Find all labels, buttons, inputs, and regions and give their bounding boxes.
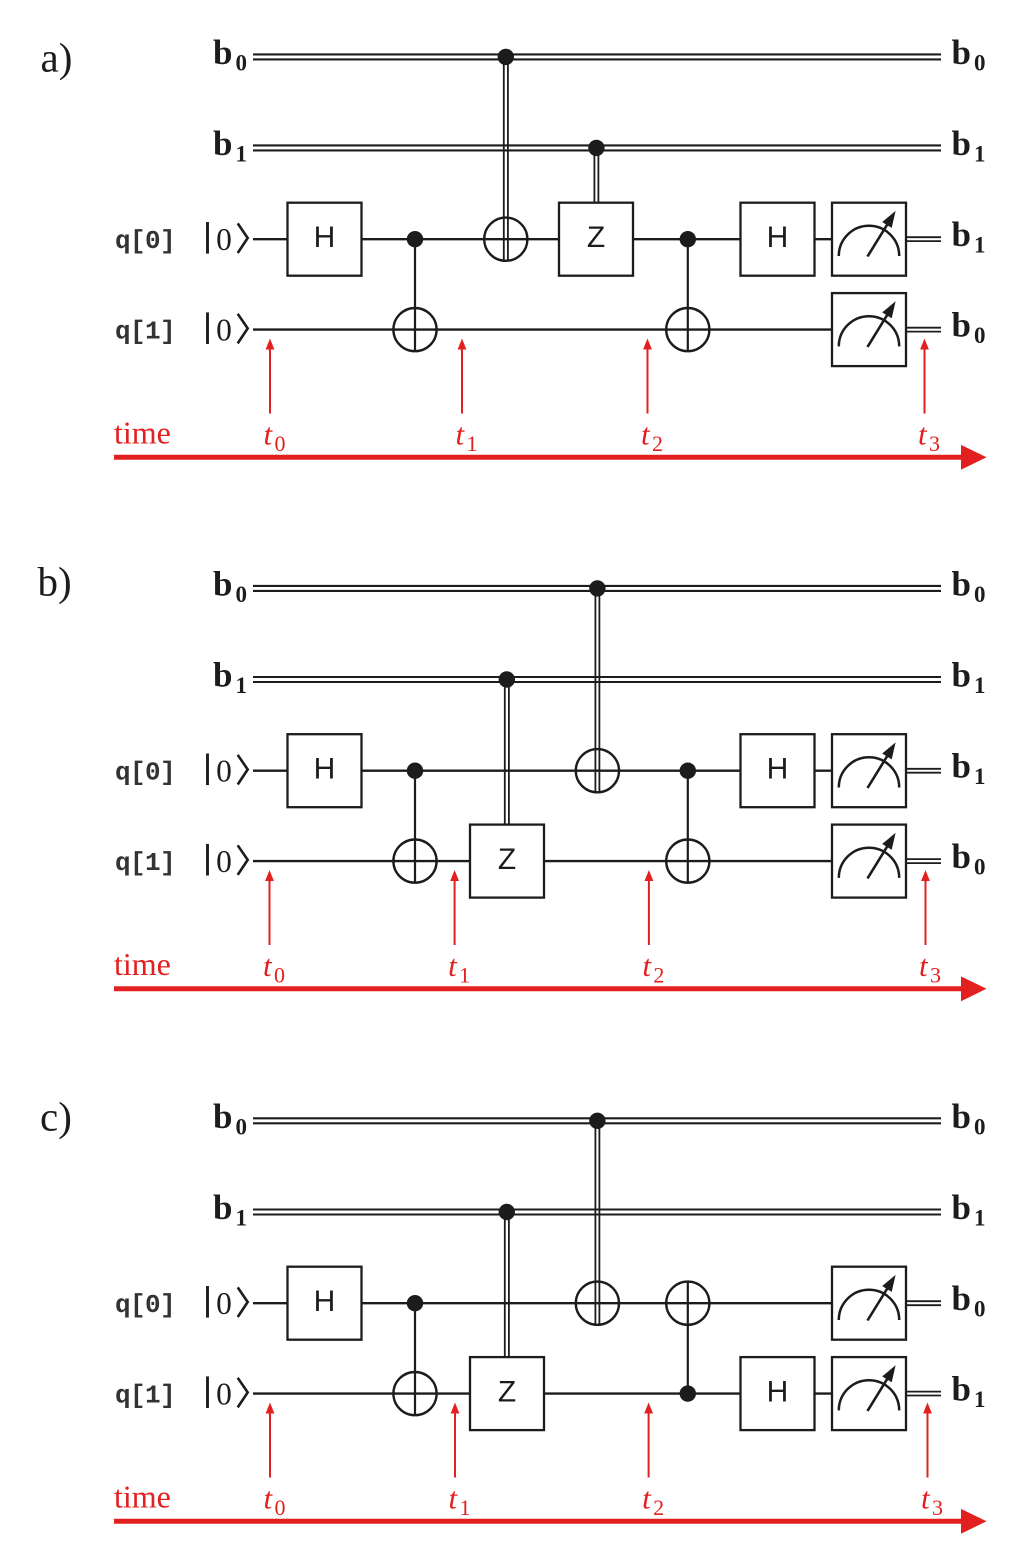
- svg-text:1: 1: [236, 141, 248, 166]
- panel b control dot on b1: [499, 671, 515, 687]
- panel c control dot on b0: [589, 1113, 605, 1129]
- panel c classical wire b1: [253, 1210, 941, 1215]
- panel c ket |0> on q[0]: [208, 1286, 248, 1321]
- svg-text:t: t: [641, 417, 651, 452]
- svg-text:b: b: [213, 33, 232, 72]
- svg-text:time: time: [114, 415, 171, 451]
- svg-text:b: b: [952, 1279, 971, 1318]
- panel b label b1 right (q0 out): [952, 747, 986, 790]
- svg-text:1: 1: [459, 963, 470, 988]
- svg-text:1: 1: [236, 1206, 248, 1231]
- svg-text:2: 2: [653, 1495, 664, 1520]
- svg-text:b: b: [952, 1097, 971, 1136]
- panel c label b0 left: [213, 1097, 247, 1140]
- svg-text:H: H: [767, 753, 789, 786]
- svg-text:b: b: [213, 656, 232, 695]
- svg-text:q[1]: q[1]: [115, 848, 175, 878]
- panel a label b1 right (q0 out): [952, 215, 986, 258]
- panel a time label t1: [456, 417, 478, 457]
- svg-text:t: t: [921, 1481, 931, 1516]
- panel a time label t0: [264, 417, 286, 457]
- panel b wire q[1]: [253, 860, 832, 862]
- panel a measurement on q[1]: [832, 293, 906, 366]
- panel b CNOT2 control dot on q[0]: [680, 763, 696, 779]
- panel a wire q[0]: [253, 238, 832, 240]
- svg-text:H: H: [314, 1285, 336, 1318]
- svg-text:0: 0: [216, 753, 232, 788]
- svg-text:t: t: [264, 417, 274, 452]
- panel c CNOT2 vertical: [687, 1282, 689, 1394]
- svg-text:0: 0: [974, 1114, 986, 1139]
- panel a CNOT2 vertical: [687, 239, 689, 351]
- svg-text:H: H: [314, 753, 336, 786]
- panel b measurement on q[0]: [832, 734, 906, 807]
- panel b label b0 right: [952, 564, 986, 607]
- svg-text:q[1]: q[1]: [115, 1381, 175, 1411]
- panel b label time: [114, 946, 171, 982]
- panel a label b0 right: [952, 33, 986, 75]
- panel c label b1 right (q1 out): [952, 1370, 986, 1413]
- panel a time axis: [114, 445, 987, 470]
- panel c time marker arrow t3: [923, 1403, 932, 1478]
- panel b time marker arrow t2: [645, 870, 654, 945]
- svg-text:b: b: [952, 306, 971, 345]
- panel a time label t2: [641, 417, 663, 457]
- panel c CNOT1 vertical: [414, 1303, 416, 1415]
- panel b CNOT1 target on q[1]: [393, 840, 436, 883]
- svg-text:b: b: [952, 215, 971, 254]
- svg-text:1: 1: [460, 1495, 471, 1520]
- panel a gate H second on q[0]: [741, 203, 815, 276]
- svg-text:2: 2: [652, 431, 663, 456]
- svg-text:b: b: [213, 124, 232, 163]
- panel a gate Z on q[0]: [559, 203, 633, 276]
- panel a CNOT1 target on q[1]: [393, 308, 436, 351]
- panel b control dot on b0: [589, 580, 605, 596]
- panel a label q[1]: [115, 317, 175, 347]
- panel c label q[0]: [115, 1290, 175, 1320]
- panel c label b1 right: [952, 1188, 986, 1231]
- svg-text:0: 0: [236, 50, 248, 75]
- panel b gate H second on q[0]: [741, 734, 815, 807]
- panel c measurement on q[1]: [832, 1357, 906, 1430]
- svg-text:b: b: [952, 747, 971, 786]
- svg-text:b: b: [952, 564, 971, 603]
- panel c wire q[1]: [253, 1392, 832, 1394]
- panel a time marker arrow t1: [458, 339, 467, 414]
- panel a time marker arrow t2: [643, 339, 652, 414]
- panel a time marker arrow t0: [266, 339, 275, 414]
- panel c X target on q[0] (from b0): [576, 1282, 619, 1325]
- panel b ket |0> on q[0]: [208, 753, 248, 788]
- panel a output classical line q[1]: [906, 328, 941, 332]
- panel c label b0 right: [952, 1097, 986, 1140]
- svg-text:1: 1: [974, 233, 986, 258]
- panel a label b1 left: [213, 124, 247, 167]
- svg-text:b: b: [213, 1188, 232, 1227]
- panel c CNOT2 control dot on q[1]: [680, 1385, 696, 1401]
- svg-text:3: 3: [932, 1495, 943, 1520]
- panel b output classical line q[0]: [906, 769, 941, 773]
- svg-text:b: b: [952, 656, 971, 695]
- svg-text:0: 0: [974, 1297, 986, 1322]
- panel a CNOT1 control dot on q[0]: [407, 231, 423, 247]
- panel c measurement on q[0]: [832, 1267, 906, 1340]
- svg-text:0: 0: [275, 431, 286, 456]
- panel a control dot on b1: [588, 140, 604, 156]
- svg-text:t: t: [264, 1481, 274, 1516]
- panel a label q[0]: [115, 226, 175, 256]
- panel a label b0 right (q1 out): [952, 306, 986, 349]
- panel b wire q[0]: [253, 770, 832, 772]
- panel a ket |0> on q[1]: [208, 312, 248, 347]
- panel b time marker arrow t1: [450, 870, 459, 945]
- svg-text:0: 0: [274, 963, 285, 988]
- svg-text:0: 0: [236, 582, 248, 607]
- panel b time label t2: [642, 948, 664, 988]
- panel b caption letter: [38, 558, 72, 604]
- svg-text:1: 1: [467, 431, 478, 456]
- svg-text:t: t: [448, 948, 458, 983]
- panel a CNOT2 target on q[1]: [666, 308, 709, 351]
- panel b time label t0: [263, 948, 285, 988]
- panel b time marker arrow t3: [921, 870, 930, 945]
- panel b CNOT1 control dot on q[0]: [407, 763, 423, 779]
- svg-text:2: 2: [653, 963, 664, 988]
- svg-text:b: b: [952, 124, 971, 163]
- panel c time marker arrow t2: [644, 1403, 653, 1478]
- panel a CNOT2 control dot on q[0]: [680, 231, 696, 247]
- panel c caption letter: [40, 1094, 72, 1140]
- panel c label b0 right (q0 out): [952, 1279, 986, 1322]
- panel c control dot on b1: [499, 1204, 515, 1220]
- svg-text:t: t: [919, 948, 929, 983]
- panel b classical control line from b0: [595, 588, 599, 792]
- svg-text:0: 0: [216, 1286, 232, 1321]
- svg-text:1: 1: [236, 673, 248, 698]
- panel c gate H first on q[0]: [288, 1267, 362, 1340]
- panel b CNOT2 target on q[1]: [666, 840, 709, 883]
- panel b classical wire b0: [253, 586, 941, 591]
- panel c time label t2: [642, 1481, 664, 1521]
- svg-text:1: 1: [974, 1387, 986, 1412]
- panel c time label t3: [921, 1481, 943, 1521]
- svg-text:0: 0: [216, 312, 232, 347]
- panel b time marker arrow t0: [265, 870, 274, 945]
- panel b label b0 left: [213, 564, 247, 607]
- panel c time label t1: [449, 1481, 471, 1521]
- panel a time label t3: [918, 417, 940, 457]
- svg-text:time: time: [114, 946, 171, 982]
- panel a classical control line from b0: [504, 57, 508, 261]
- svg-text:b: b: [213, 1097, 232, 1136]
- svg-text:t: t: [449, 1481, 459, 1516]
- svg-text:q[1]: q[1]: [115, 317, 175, 347]
- svg-text:Z: Z: [587, 221, 605, 254]
- panel a classical control line from b1: [594, 148, 598, 203]
- panel c time marker arrow t1: [451, 1403, 460, 1478]
- svg-text:0: 0: [974, 323, 986, 348]
- panel a wire q[1]: [253, 328, 832, 330]
- panel b label b1 left: [213, 656, 247, 699]
- panel c classical control line from b1: [505, 1212, 509, 1357]
- svg-text:t: t: [642, 948, 652, 983]
- panel c CNOT1 control dot on q[0]: [407, 1295, 423, 1311]
- svg-text:b: b: [952, 33, 971, 72]
- svg-text:c): c): [40, 1094, 72, 1140]
- panel c time marker arrow t0: [266, 1403, 275, 1478]
- panel a label time: [114, 415, 171, 451]
- svg-text:H: H: [767, 221, 789, 254]
- svg-text:0: 0: [216, 1376, 232, 1411]
- svg-text:3: 3: [930, 963, 941, 988]
- svg-text:1: 1: [974, 764, 986, 789]
- panel c label q[1]: [115, 1381, 175, 1411]
- svg-text:b: b: [952, 1188, 971, 1227]
- svg-text:b: b: [213, 564, 232, 603]
- panel c label time: [114, 1479, 171, 1515]
- panel c classical wire b0: [253, 1118, 941, 1123]
- panel c CNOT1 target on q[1]: [393, 1372, 436, 1415]
- panel a classical wire b1: [253, 145, 941, 150]
- panel a ket |0> on q[0]: [208, 222, 248, 257]
- panel a gate H first on q[0]: [288, 203, 362, 276]
- panel c time axis: [114, 1509, 987, 1534]
- panel b classical wire b1: [253, 677, 941, 682]
- panel c time label t0: [264, 1481, 286, 1521]
- panel a caption letter: [41, 35, 73, 81]
- panel b X target on q[0] (from b0): [576, 749, 619, 792]
- panel b time axis: [114, 976, 987, 1001]
- panel a label b0 left: [213, 33, 247, 75]
- svg-text:a): a): [41, 35, 73, 81]
- svg-text:0: 0: [974, 582, 986, 607]
- panel b time label t1: [448, 948, 470, 988]
- panel c output classical line q[1]: [906, 1392, 941, 1396]
- panel b ket |0> on q[1]: [208, 844, 248, 879]
- svg-text:1: 1: [974, 141, 986, 166]
- svg-text:t: t: [918, 417, 928, 452]
- panel b classical control line from b1: [505, 680, 509, 825]
- svg-text:0: 0: [236, 1114, 248, 1139]
- panel a X target on q[0] (from b0): [484, 218, 527, 261]
- svg-text:b: b: [952, 1370, 971, 1409]
- svg-text:Z: Z: [498, 1375, 516, 1408]
- panel a time marker arrow t3: [920, 339, 929, 414]
- svg-text:1: 1: [974, 1206, 986, 1231]
- svg-text:0: 0: [974, 855, 986, 880]
- svg-text:q[0]: q[0]: [115, 1290, 175, 1320]
- svg-text:0: 0: [216, 222, 232, 257]
- panel b label q[0]: [115, 758, 175, 788]
- panel c classical control line from b0: [595, 1121, 599, 1325]
- panel b gate H first on q[0]: [288, 734, 362, 807]
- panel b CNOT1 vertical: [414, 771, 416, 883]
- panel a measurement on q[0]: [832, 203, 906, 276]
- panel c ket |0> on q[1]: [208, 1376, 248, 1411]
- svg-text:0: 0: [216, 844, 232, 879]
- svg-text:t: t: [456, 417, 466, 452]
- svg-text:0: 0: [974, 50, 986, 75]
- svg-text:q[0]: q[0]: [115, 226, 175, 256]
- svg-text:Z: Z: [498, 843, 516, 876]
- svg-text:time: time: [114, 1479, 171, 1515]
- svg-text:H: H: [314, 221, 336, 254]
- panel b gate Z on q[1]: [470, 825, 544, 898]
- panel a CNOT1 vertical: [414, 239, 416, 351]
- panel c label b1 left: [213, 1188, 247, 1231]
- svg-text:3: 3: [929, 431, 940, 456]
- svg-text:1: 1: [974, 673, 986, 698]
- svg-text:q[0]: q[0]: [115, 758, 175, 788]
- panel b time label t3: [919, 948, 941, 988]
- panel b measurement on q[1]: [832, 825, 906, 898]
- svg-text:0: 0: [275, 1495, 286, 1520]
- panel b label b1 right: [952, 656, 986, 699]
- svg-text:b: b: [952, 837, 971, 876]
- panel c gate Z on q[1]: [470, 1357, 544, 1430]
- panel a label b1 right: [952, 124, 986, 167]
- svg-text:b): b): [38, 558, 72, 604]
- panel a output classical line q[0]: [906, 237, 941, 241]
- panel b output classical line q[1]: [906, 859, 941, 863]
- panel c CNOT2 target on q[0]: [666, 1282, 709, 1325]
- svg-text:H: H: [767, 1375, 789, 1408]
- panel c wire q[0]: [253, 1302, 832, 1304]
- panel c output classical line q[0]: [906, 1301, 941, 1305]
- panel b label q[1]: [115, 848, 175, 878]
- panel a classical wire b0: [253, 54, 941, 59]
- svg-text:t: t: [263, 948, 273, 983]
- panel b label b0 right (q1 out): [952, 837, 986, 880]
- svg-text:t: t: [642, 1481, 652, 1516]
- panel a control dot on b0: [498, 49, 514, 65]
- panel c gate H second on q[1]: [741, 1357, 815, 1430]
- panel b CNOT2 vertical: [687, 771, 689, 883]
